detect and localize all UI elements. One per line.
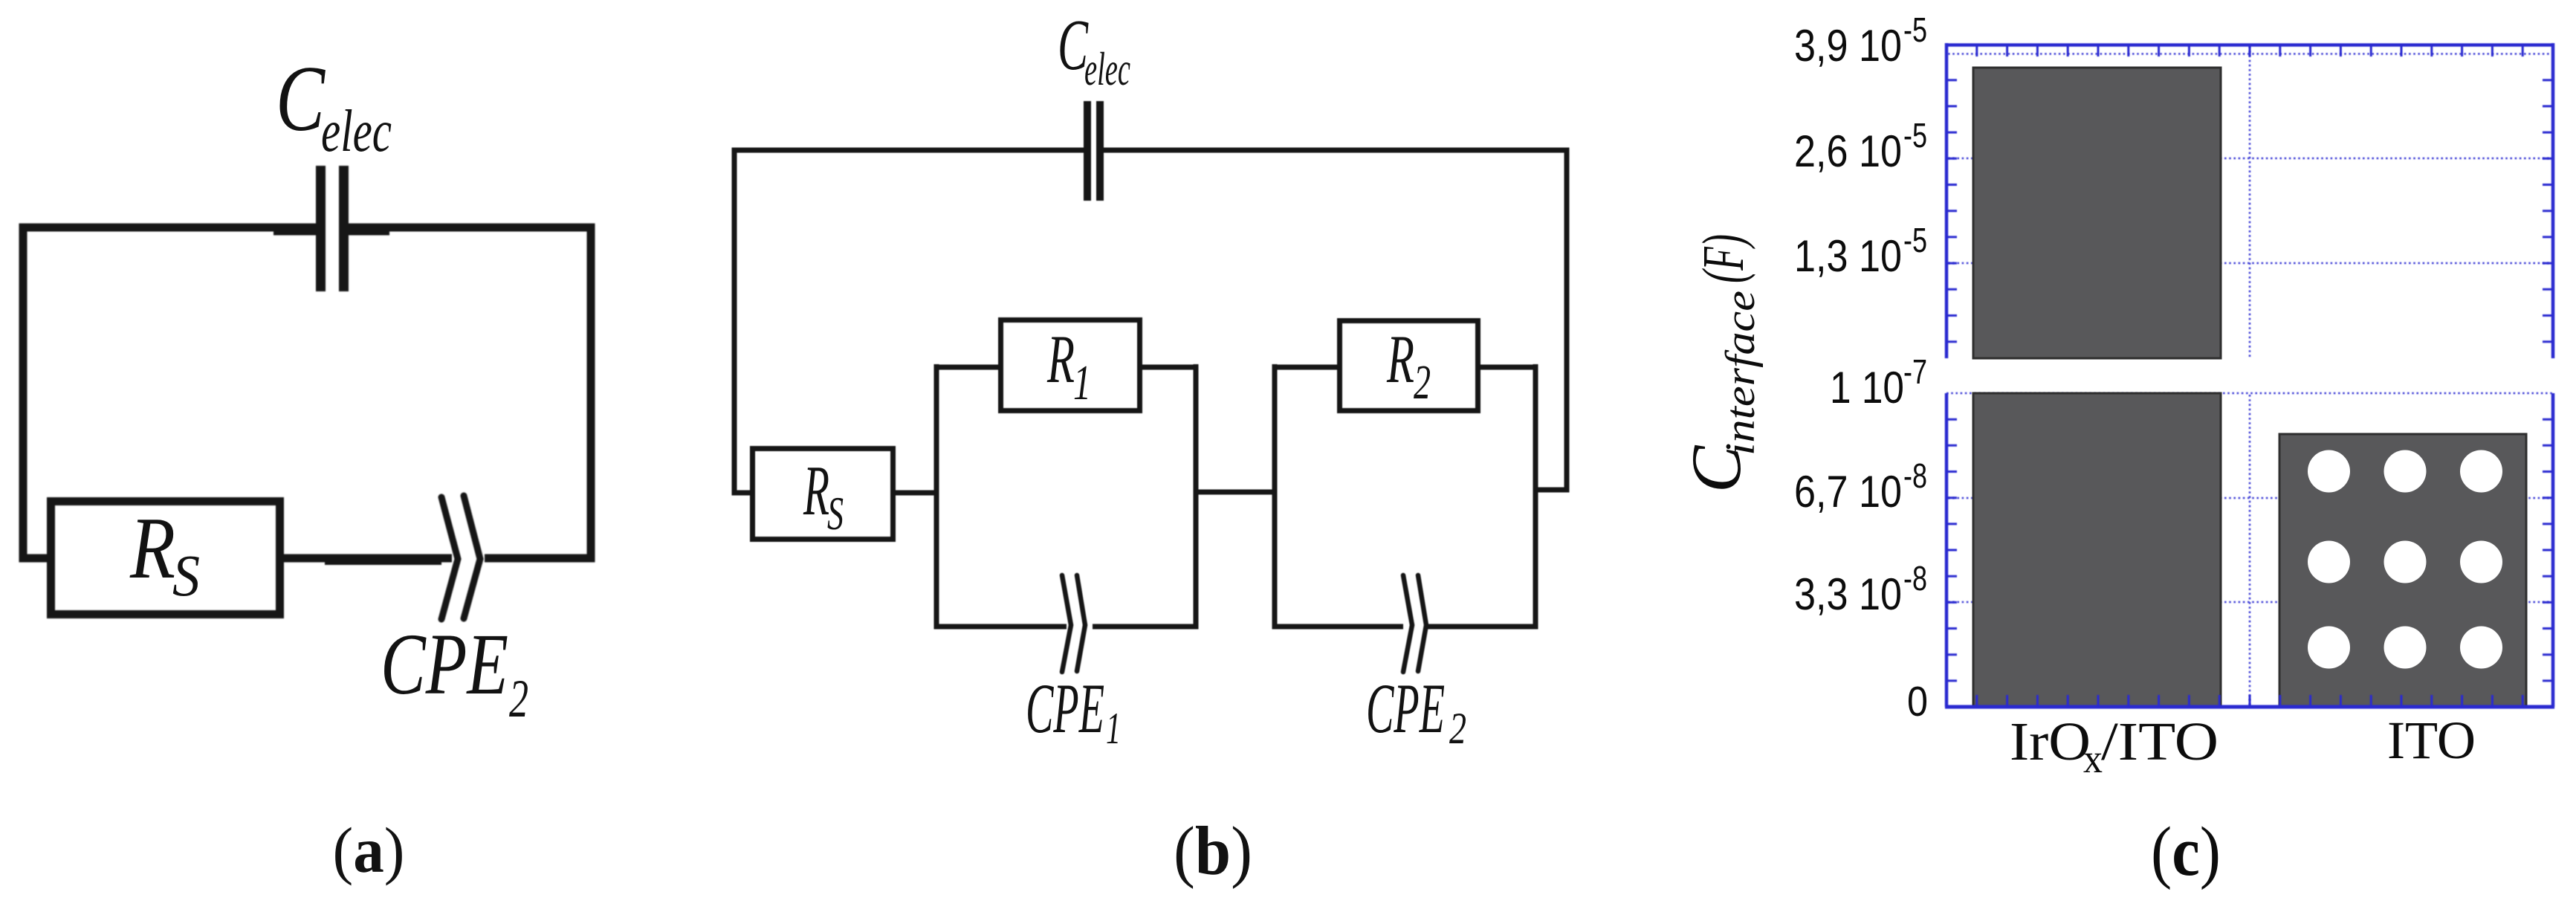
- svg-text:-5: -5: [1903, 116, 1927, 155]
- svg-text:(b): (b): [1174, 813, 1252, 890]
- svg-text:-8: -8: [1903, 456, 1927, 495]
- svg-text:interface: interface: [1718, 291, 1764, 456]
- svg-text:ITO: ITO: [2387, 711, 2476, 770]
- svg-text:CPE: CPE: [1366, 669, 1445, 748]
- svg-text:CPE: CPE: [381, 615, 508, 713]
- svg-text:-5: -5: [1903, 221, 1927, 259]
- svg-text:R: R: [1046, 321, 1075, 397]
- svg-text:S: S: [172, 544, 200, 609]
- svg-text:R: R: [129, 499, 175, 597]
- svg-text:1: 1: [1106, 704, 1121, 753]
- svg-text:1: 1: [1073, 355, 1091, 410]
- svg-text:2: 2: [509, 669, 528, 728]
- svg-text:S: S: [827, 487, 844, 540]
- svg-text:CPE: CPE: [1026, 669, 1104, 748]
- svg-text:R: R: [1386, 321, 1414, 397]
- svg-text:(F): (F): [1692, 234, 1756, 283]
- svg-text:x: x: [2083, 736, 2103, 781]
- svg-text:-5: -5: [1903, 10, 1927, 49]
- svg-text:elec: elec: [321, 97, 392, 164]
- svg-text:3,9 10: 3,9 10: [1794, 21, 1902, 71]
- svg-text:3,3 10: 3,3 10: [1794, 569, 1902, 619]
- svg-text:0: 0: [1907, 678, 1928, 725]
- svg-text:1,3 10: 1,3 10: [1794, 231, 1902, 281]
- svg-text:(a): (a): [333, 814, 405, 886]
- svg-text:2: 2: [1449, 704, 1466, 753]
- svg-text:C: C: [276, 48, 326, 151]
- svg-text:6,7 10: 6,7 10: [1794, 467, 1902, 517]
- svg-text:elec: elec: [1084, 42, 1130, 95]
- svg-text:1 10: 1 10: [1830, 363, 1904, 413]
- svg-text:-7: -7: [1903, 352, 1927, 391]
- svg-text:2,6 10: 2,6 10: [1794, 126, 1902, 176]
- svg-text:R: R: [803, 451, 829, 530]
- svg-text:(c): (c): [2151, 813, 2221, 890]
- svg-text:/ITO: /ITO: [2101, 711, 2219, 772]
- svg-text:-8: -8: [1903, 559, 1927, 598]
- svg-text:IrO: IrO: [2010, 711, 2091, 772]
- svg-text:2: 2: [1414, 355, 1431, 410]
